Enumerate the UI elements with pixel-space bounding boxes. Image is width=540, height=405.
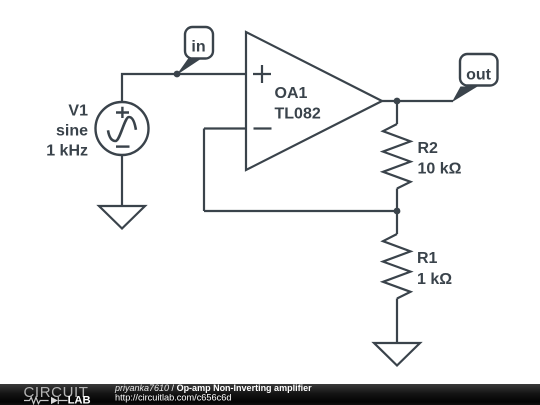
wire R2/R1 junction down xyxy=(396,211,398,234)
wire R1 bottom to ground xyxy=(396,299,398,344)
svg-text:out: out xyxy=(466,67,492,84)
node output junction dot xyxy=(394,98,401,105)
svg-text:V1: V1 xyxy=(68,103,88,120)
node in junction dot xyxy=(174,71,181,78)
svg-text:10 kΩ: 10 kΩ xyxy=(418,161,462,178)
svg-text:R2: R2 xyxy=(418,140,439,157)
node feedback junction dot xyxy=(394,208,401,215)
svg-text:http://circuitlab.com/c656c6d: http://circuitlab.com/c656c6d xyxy=(115,393,231,403)
ground below R1 xyxy=(374,343,420,366)
svg-text:1 kΩ: 1 kΩ xyxy=(417,271,452,288)
wire output to R2 xyxy=(396,101,398,124)
svg-text:in: in xyxy=(191,39,205,56)
in label box xyxy=(185,27,213,59)
V1 plus sign xyxy=(116,107,129,118)
wire op-amp output xyxy=(382,100,453,102)
out label box xyxy=(460,54,498,86)
svg-text:1 kHz: 1 kHz xyxy=(46,143,88,160)
resistor R2 zigzag xyxy=(383,124,411,189)
svg-text:priyanka7610 / Op-amp Non-Inve: priyanka7610 / Op-amp Non-Inverting ampl… xyxy=(114,383,312,393)
op-amp - input mark xyxy=(254,127,272,129)
wire feedback vertical xyxy=(203,129,205,212)
out label pointer wedge xyxy=(452,87,478,103)
svg-text:LAB: LAB xyxy=(68,394,91,405)
op-amp + input mark xyxy=(253,65,271,83)
op-amp OA1 triangle xyxy=(246,32,382,170)
wire top from V1 to op-amp + input xyxy=(122,74,246,102)
svg-text:TL082: TL082 xyxy=(275,106,321,123)
wire V1 bottom to ground xyxy=(121,155,123,206)
voltage source V1 xyxy=(96,102,149,155)
V1 sine symbol xyxy=(108,117,136,141)
wire inverting input stub xyxy=(204,127,246,129)
ground below V1 xyxy=(99,206,145,229)
wire R2 bottom xyxy=(396,189,398,212)
svg-text:R1: R1 xyxy=(417,250,438,267)
in label pointer wedge xyxy=(176,58,202,75)
CircuitLab logo diode triangle xyxy=(51,397,58,404)
CircuitLab logo resistor zigzag and diode xyxy=(24,397,68,404)
wire feedback horizontal xyxy=(204,210,397,212)
svg-text:OA1: OA1 xyxy=(275,85,308,102)
V1 minus sign xyxy=(116,145,130,147)
svg-text:sine: sine xyxy=(56,123,88,140)
resistor R1 zigzag xyxy=(383,234,411,299)
